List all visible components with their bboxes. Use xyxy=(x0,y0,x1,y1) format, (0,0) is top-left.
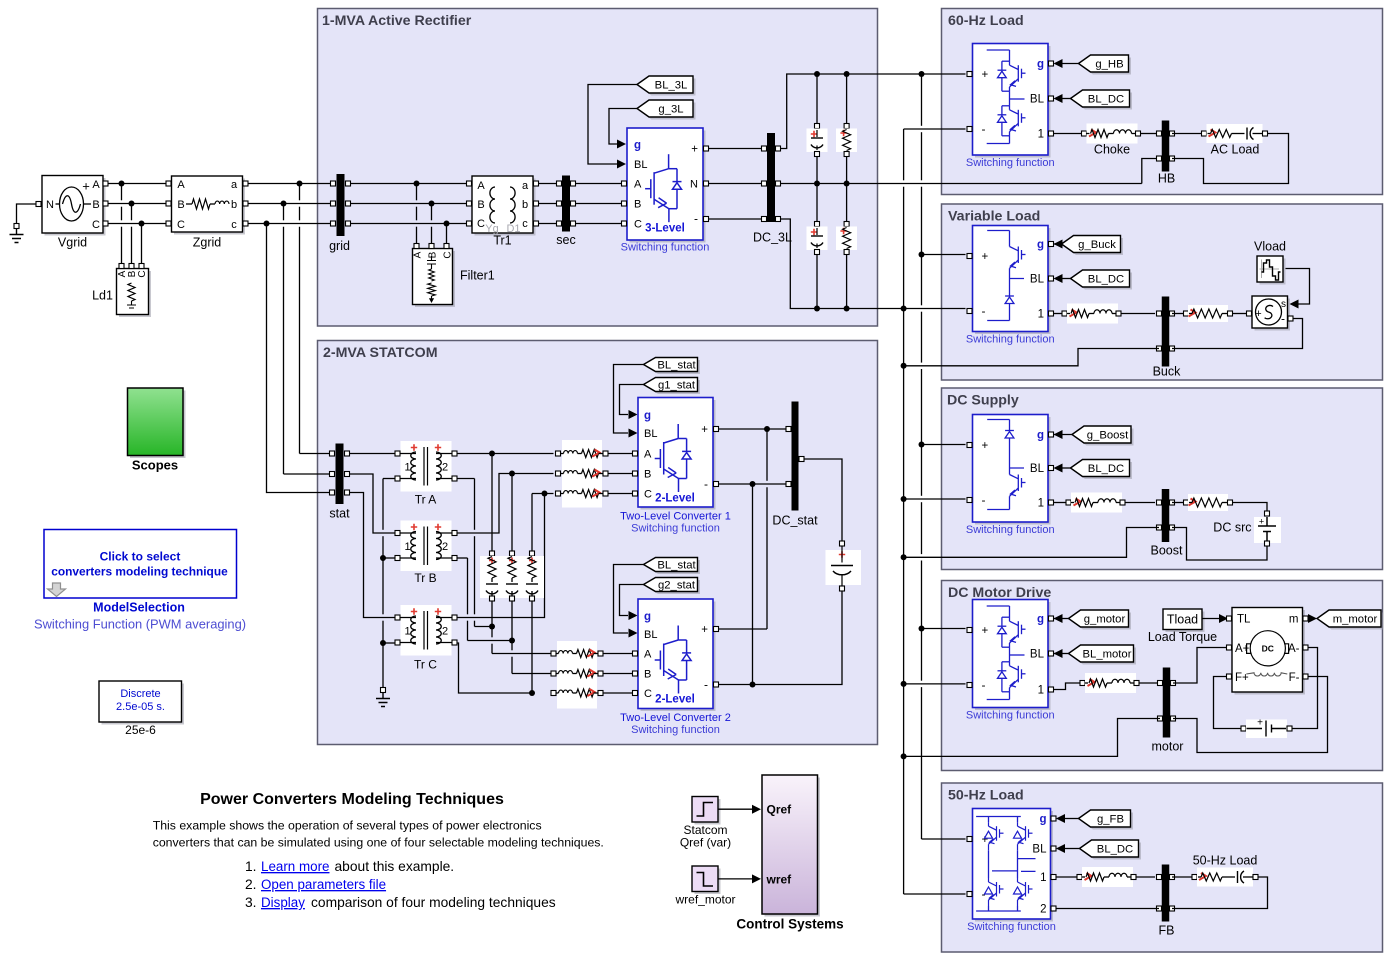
wire Boost bus return to minus rail xyxy=(906,528,1159,558)
junction Filter1 B xyxy=(429,201,435,207)
wire converter 1 plus to DC_stat xyxy=(719,428,787,430)
svg-text:This example shows the operati: This example shows the operation of seve… xyxy=(153,819,542,833)
wire stat C drop xyxy=(267,224,331,493)
wire converter output 2 to FB bus xyxy=(1057,908,1160,910)
junction plus rail DC Supply xyxy=(919,442,925,448)
svg-text:TL: TL xyxy=(1237,614,1251,626)
svg-text:+: + xyxy=(982,834,989,846)
junction minus rail Boost return xyxy=(901,554,907,560)
bus Boost xyxy=(1162,489,1170,542)
svg-text:2: 2 xyxy=(442,541,448,553)
svg-text:1: 1 xyxy=(404,626,410,638)
svg-text:Ld1: Ld1 xyxy=(92,289,113,303)
svg-text:Choke: Choke xyxy=(1094,143,1130,157)
junction minus rail motor return xyxy=(901,753,907,759)
svg-text:stat: stat xyxy=(329,507,350,521)
svg-text:BL: BL xyxy=(1030,94,1045,106)
svg-text:Switching function: Switching function xyxy=(967,921,1056,933)
svg-text:-: - xyxy=(704,678,708,692)
wire row C to RC branch 3 xyxy=(531,494,533,554)
battery DC src xyxy=(1265,511,1270,516)
svg-text:BL_DC: BL_DC xyxy=(1088,463,1124,475)
svg-text:+: + xyxy=(1259,517,1264,527)
wire FB bus to RC load xyxy=(1172,876,1192,878)
svg-text:Control Systems: Control Systems xyxy=(736,917,843,932)
svg-text:DC_stat: DC_stat xyxy=(772,514,818,528)
svg-text:BL: BL xyxy=(1030,274,1045,286)
resistor R2 lower DC bus xyxy=(846,186,848,222)
svg-text:Open parameters file: Open parameters file xyxy=(261,877,386,892)
svg-text:N: N xyxy=(46,199,54,211)
svg-text:m: m xyxy=(1289,614,1299,626)
wire Ld1 A drop xyxy=(121,184,123,201)
wire Variable plus stub xyxy=(922,254,966,256)
wire choke to motor bus xyxy=(1139,682,1160,684)
svg-text:Learn more: Learn more xyxy=(261,859,329,874)
wire RC2 junction to converter2 B xyxy=(511,643,513,650)
svg-text:C: C xyxy=(477,218,485,230)
svg-text:Variable Load: Variable Load xyxy=(948,209,1040,225)
wire Tr B secondary phase xyxy=(457,474,554,534)
wire wref_motor to Control Systems xyxy=(718,878,753,880)
wire phase B Vgrid to Zgrid xyxy=(108,203,166,205)
impedance block Zgrid xyxy=(174,179,245,235)
junction plus rail cap column xyxy=(814,71,820,77)
svg-text:converters modeling technique: converters modeling technique xyxy=(51,565,228,579)
controlled voltage source Vs xyxy=(1255,299,1291,331)
svg-text:a: a xyxy=(231,179,238,191)
svg-text:BL_DC: BL_DC xyxy=(1097,844,1133,856)
svg-text:wref: wref xyxy=(766,873,793,887)
svg-text:HB: HB xyxy=(1158,172,1175,186)
svg-text:Switching function: Switching function xyxy=(966,710,1055,722)
junction plus rail res column xyxy=(844,71,850,77)
wire RC load return xyxy=(1172,877,1268,909)
junction RC branch 1 xyxy=(489,451,495,457)
junction N res column xyxy=(844,181,850,187)
converter block Two-Level Converter 2 xyxy=(641,602,716,712)
svg-text:+: + xyxy=(1257,718,1263,729)
junction phase B to stat xyxy=(281,201,287,207)
svg-text:Power Converters Modeling Tech: Power Converters Modeling Techniques xyxy=(200,791,504,808)
wire converter minus link xyxy=(752,484,754,685)
junction minus rail Variable return xyxy=(901,363,907,369)
junction minus rail res column xyxy=(844,306,850,312)
resistor Rload Variable xyxy=(1184,311,1189,316)
junction secondary return A xyxy=(489,624,495,630)
svg-text:BL: BL xyxy=(644,629,657,641)
wire resistor to source xyxy=(1233,313,1248,315)
svg-text:1: 1 xyxy=(1040,872,1046,884)
wire Tr1 to sec bus phase b xyxy=(539,203,559,205)
resistor R1 upper DC bus xyxy=(846,76,848,124)
svg-text:1: 1 xyxy=(404,541,410,553)
source block wref_motor xyxy=(695,869,721,895)
junction phase A to Ld1 xyxy=(119,181,125,187)
svg-text:Load Torque: Load Torque xyxy=(1148,630,1217,644)
svg-text:50-Hz Load: 50-Hz Load xyxy=(948,788,1024,804)
svg-text:DC Motor Drive: DC Motor Drive xyxy=(948,585,1051,601)
svg-text:B: B xyxy=(644,469,651,481)
junction minus rail vertical xyxy=(901,306,907,312)
wire BL_motor to converter BL xyxy=(1054,653,1069,655)
svg-text:a: a xyxy=(522,180,529,192)
inductor choke motor xyxy=(1080,681,1085,686)
bus DC_3L xyxy=(767,133,775,222)
svg-text:3.: 3. xyxy=(245,895,257,910)
svg-text:g: g xyxy=(1037,239,1044,251)
svg-text:2-Level: 2-Level xyxy=(655,694,695,706)
svg-text:2-Level: 2-Level xyxy=(655,493,695,505)
junction converter minus link xyxy=(750,481,756,487)
wire Tr1 to sec bus phase a xyxy=(539,183,559,185)
svg-text:Switching function: Switching function xyxy=(966,334,1055,346)
wire RC3 bottom to junction xyxy=(531,601,533,691)
svg-text:Switching function: Switching function xyxy=(631,523,720,535)
svg-text:2: 2 xyxy=(442,462,448,474)
svg-text:ModelSelection: ModelSelection xyxy=(93,601,185,615)
svg-text:BL: BL xyxy=(1030,649,1045,661)
goto tag g1_stat xyxy=(646,380,700,394)
svg-text:DC_3L: DC_3L xyxy=(753,231,792,245)
svg-text:-: - xyxy=(982,678,986,692)
svg-text:1.: 1. xyxy=(245,859,257,874)
svg-text:g: g xyxy=(1039,814,1046,826)
svg-text:Scopes: Scopes xyxy=(132,458,178,473)
wire BL_stat to converter 2 BL xyxy=(614,565,644,634)
svg-text:Tload: Tload xyxy=(1167,613,1198,627)
svg-text:Discrete: Discrete xyxy=(120,688,160,700)
wire g2_stat to converter 2 g xyxy=(620,585,644,616)
junction minus rail DC Supply xyxy=(901,496,907,502)
wire motor bus to A+ xyxy=(1173,648,1227,684)
wire 50Hz plus stub xyxy=(922,838,966,840)
svg-text:C: C xyxy=(644,688,652,700)
wire DC plus rail xyxy=(781,74,966,149)
wire stat to Tr A primary xyxy=(350,453,396,455)
svg-text:2: 2 xyxy=(442,626,448,638)
svg-text:2.: 2. xyxy=(245,877,257,892)
filter block Filter1 xyxy=(415,251,455,307)
svg-text:g_Boost: g_Boost xyxy=(1087,430,1129,442)
svg-text:BL: BL xyxy=(1032,844,1047,856)
svg-text:Qref (var): Qref (var) xyxy=(680,836,731,850)
svg-text:g_3L: g_3L xyxy=(658,104,683,116)
wire m to m_motor tag xyxy=(1308,618,1310,620)
converter block Boost Switching function xyxy=(975,417,1051,525)
shunt RC branch 1 xyxy=(491,455,493,553)
wire DC_stat to capacitor top xyxy=(804,459,842,541)
junction secondary return C xyxy=(529,690,535,696)
svg-text:+: + xyxy=(691,144,698,156)
capacitor Cstat xyxy=(840,541,845,546)
svg-text:g1_stat: g1_stat xyxy=(658,380,696,392)
svg-text:50-Hz Load: 50-Hz Load xyxy=(1193,854,1258,868)
svg-text:g_HB: g_HB xyxy=(1095,59,1123,71)
svg-text:1: 1 xyxy=(1038,685,1044,697)
from tag g_HB xyxy=(1081,58,1131,75)
wire Choke to HB bus xyxy=(1141,133,1157,135)
wire DC minus rail xyxy=(781,219,966,309)
svg-text:+: + xyxy=(982,440,989,452)
svg-text:C: C xyxy=(644,489,652,501)
svg-text:-: - xyxy=(704,477,708,491)
svg-text:Qref: Qref xyxy=(767,803,793,817)
wire Tr A secondary return xyxy=(457,478,475,480)
svg-text:g: g xyxy=(1037,59,1044,71)
svg-text:2.5e-05 s.: 2.5e-05 s. xyxy=(116,701,165,713)
svg-text:A: A xyxy=(413,251,424,258)
svg-text:AC Load: AC Load xyxy=(1211,143,1260,157)
svg-text:about this example.: about this example. xyxy=(335,859,455,874)
wire choke to FB bus xyxy=(1136,876,1155,878)
converter block motor Switching function xyxy=(975,602,1051,710)
from tag g_Buck xyxy=(1064,238,1123,255)
from tag BL_DC 50Hz xyxy=(1082,843,1141,860)
from tag BL_DC 60Hz xyxy=(1073,93,1132,110)
svg-text:c: c xyxy=(231,219,237,231)
svg-text:3-Level: 3-Level xyxy=(645,223,685,235)
svg-text:2-MVA STATCOM: 2-MVA STATCOM xyxy=(323,345,438,361)
junction minus rail DC Motor xyxy=(901,681,907,687)
svg-text:Boost: Boost xyxy=(1151,544,1183,558)
goto tag BL_stat converter 1 xyxy=(646,360,700,374)
svg-text:m_motor: m_motor xyxy=(1333,614,1378,626)
wire motor bus return to minus rail xyxy=(906,719,1160,757)
junction phase C to stat xyxy=(264,221,270,227)
junction phase A to stat xyxy=(297,181,303,187)
svg-text:DC: DC xyxy=(1262,644,1274,654)
junction Tr B primary return xyxy=(380,555,386,561)
wire DC Supply minus stub xyxy=(904,498,966,500)
svg-text:Switching function: Switching function xyxy=(621,242,710,254)
junction plus rail Variable Load xyxy=(919,252,925,258)
goto tag BL_3L xyxy=(640,79,696,96)
svg-text:BL_motor: BL_motor xyxy=(1083,649,1132,661)
inductor choke Variable xyxy=(1062,311,1067,316)
wire stat A drop xyxy=(299,184,301,201)
wire RC1 junction to converter2 A xyxy=(491,629,493,637)
wire Buck bus return to minus rail xyxy=(906,349,1159,366)
wire AC Load return loop xyxy=(1172,134,1289,184)
svg-text:sec: sec xyxy=(556,233,575,247)
wire Boost bus to resistor xyxy=(1172,502,1184,504)
wire converter output 1 to choke 50Hz xyxy=(1057,876,1078,878)
wire phase A Zgrid to grid bus xyxy=(248,183,331,185)
voltage source Vgrid xyxy=(45,178,106,236)
svg-text:-: - xyxy=(982,493,986,507)
transformer Tr1 xyxy=(475,179,536,236)
wire DC Motor minus stub xyxy=(904,683,966,685)
panel 60-Hz Load xyxy=(942,9,1383,195)
svg-text:BL_stat: BL_stat xyxy=(657,560,696,572)
wire choke to Buck bus xyxy=(1121,313,1155,315)
svg-text:b: b xyxy=(522,199,528,211)
wire primary return chain xyxy=(383,478,395,480)
wire F- to motor bus return xyxy=(1173,677,1328,753)
svg-text:g: g xyxy=(644,410,651,422)
svg-text:1: 1 xyxy=(1038,309,1044,321)
from tag BL_DC DC Supply xyxy=(1073,462,1132,479)
converter block Two-Level Converter 1 xyxy=(641,400,716,510)
svg-text:DC src: DC src xyxy=(1213,521,1251,535)
subsystem Control Systems xyxy=(765,778,821,917)
svg-text:Click to select: Click to select xyxy=(100,550,181,564)
svg-text:Switching function: Switching function xyxy=(966,524,1055,536)
junction plus rail drop xyxy=(919,71,925,77)
source block Tload xyxy=(1166,612,1205,633)
wire converter output to choke Variable xyxy=(1054,313,1062,315)
svg-text:Vgrid: Vgrid xyxy=(58,236,87,250)
svg-text:-: - xyxy=(982,122,986,136)
panel 1-MVA Active Rectifier xyxy=(318,9,878,327)
svg-text:A: A xyxy=(634,179,642,191)
goto tag BL_stat converter 2 xyxy=(646,560,700,574)
wire g_Boost to converter g xyxy=(1054,434,1072,436)
wire BL_DC to converter BL Variable xyxy=(1062,278,1071,280)
wire g1_stat to converter 1 g xyxy=(620,385,644,415)
svg-text:BL: BL xyxy=(644,428,657,440)
wire converter 2 minus to capacitor xyxy=(719,591,843,685)
svg-text:Buck: Buck xyxy=(1153,365,1182,379)
svg-text:+: + xyxy=(701,624,708,636)
svg-text:60-Hz Load: 60-Hz Load xyxy=(948,13,1024,29)
wire grid bus to Tr1 phase C xyxy=(351,223,467,225)
junction N cap column xyxy=(814,181,820,187)
svg-text:N: N xyxy=(690,179,698,191)
wire Buck bus to resistor xyxy=(1172,313,1184,315)
junction phase C to Ld1 xyxy=(139,221,145,227)
svg-text:Two-Level Converter 1: Two-Level Converter 1 xyxy=(620,511,731,523)
svg-text:b: b xyxy=(231,199,237,211)
svg-text:F-: F- xyxy=(1289,672,1300,684)
transformer Tr C xyxy=(401,605,452,656)
junction converter 2 plus drop xyxy=(764,426,770,432)
inductor Choke 60Hz xyxy=(1082,131,1087,136)
wire resistor to DC src xyxy=(1233,503,1268,512)
svg-text:A: A xyxy=(92,179,100,191)
from tag m_motor xyxy=(1320,613,1384,630)
junction RC branch 2 xyxy=(509,471,515,477)
wire Tr1 to sec bus phase c xyxy=(539,223,559,225)
wire 3-Level N to DC_3L xyxy=(709,183,764,185)
wire source minus to Buck bus xyxy=(1172,319,1303,349)
transformer Tr A xyxy=(401,441,452,492)
svg-text:C: C xyxy=(177,219,185,231)
bus HB xyxy=(1162,121,1170,172)
wire stat to Tr B primary xyxy=(350,474,396,533)
svg-text:+: + xyxy=(701,424,708,436)
bus stat xyxy=(336,444,344,505)
load block Ld1 xyxy=(119,271,151,317)
svg-text:+: + xyxy=(982,251,989,263)
bus DC_stat xyxy=(792,402,799,511)
wire BL_DC to converter BL 50Hz xyxy=(1065,848,1080,850)
wire battery to F+ xyxy=(1214,677,1242,729)
svg-text:B: B xyxy=(428,251,439,258)
wire N line to HB return xyxy=(1142,159,1157,184)
junction row C xyxy=(542,491,548,497)
wire 60Hz minus stub xyxy=(904,128,966,130)
wire g_Buck to converter g xyxy=(1054,243,1062,245)
wire RL rows to converter 1 ports xyxy=(608,453,632,455)
panel 2-MVA STATCOM xyxy=(318,341,878,745)
transformer Tr B xyxy=(401,521,452,572)
from tag BL_motor xyxy=(1071,648,1136,665)
svg-text:Display: Display xyxy=(261,895,305,910)
wire g_FB to converter g xyxy=(1065,818,1079,820)
bus grid xyxy=(337,174,345,236)
svg-text:C: C xyxy=(634,219,642,231)
svg-text:converters that can be simulat: converters that can be simulated using o… xyxy=(153,836,604,850)
ground STATCOM xyxy=(381,688,386,693)
wire stat to Tr C primary xyxy=(350,493,396,618)
svg-text:-: - xyxy=(982,304,986,318)
wire grid bus to Tr1 phase B xyxy=(351,203,467,205)
svg-text:Switching function: Switching function xyxy=(631,724,720,736)
svg-text:+: + xyxy=(982,625,989,637)
wire RL rows to converter 2 ports xyxy=(603,653,632,655)
wire Filter1 C drop xyxy=(446,224,448,244)
wire choke to Boost bus xyxy=(1125,502,1155,504)
bus FB xyxy=(1162,865,1170,922)
wire phase C Zgrid to grid bus xyxy=(248,223,331,225)
RC load 50Hz xyxy=(1192,875,1197,880)
wire HB to AC Load xyxy=(1172,133,1202,135)
wire BL_DC to converter BL xyxy=(1062,98,1071,100)
svg-text:g_motor: g_motor xyxy=(1084,614,1126,626)
DC machine block xyxy=(1235,610,1306,695)
goto tag g2_stat xyxy=(646,580,700,594)
junction minus rail cap column xyxy=(814,306,820,312)
svg-text:A: A xyxy=(477,180,485,192)
svg-text:Tr1: Tr1 xyxy=(493,234,511,248)
svg-text:B: B xyxy=(634,199,641,211)
svg-text:BL_DC: BL_DC xyxy=(1088,94,1124,106)
svg-text:Tr A: Tr A xyxy=(415,493,437,507)
svg-text:-: - xyxy=(1281,312,1285,326)
svg-text:wref_motor: wref_motor xyxy=(674,893,735,907)
bus sec xyxy=(562,176,570,232)
wire DC Supply plus stub xyxy=(922,444,966,446)
inductor choke DC Supply xyxy=(1066,500,1071,505)
svg-text:+: + xyxy=(82,179,90,194)
svg-text:C: C xyxy=(92,219,100,231)
svg-text:BL_DC: BL_DC xyxy=(1088,274,1124,286)
svg-text:1: 1 xyxy=(1038,129,1044,141)
wire BL_DC to converter BL DC Supply xyxy=(1062,467,1071,469)
svg-text:25e-6: 25e-6 xyxy=(125,723,156,737)
wire Vgrid N to ground xyxy=(17,204,37,224)
wire battery to A- xyxy=(1292,648,1318,729)
wire Tload to TL xyxy=(1202,618,1220,620)
junction converter 2 minus xyxy=(750,682,756,688)
svg-text:Filter1: Filter1 xyxy=(460,269,495,283)
wire converter 1 output to Choke xyxy=(1054,133,1082,135)
svg-text:A: A xyxy=(644,449,652,461)
svg-text:Vload: Vload xyxy=(1254,240,1286,254)
svg-text:DC Supply: DC Supply xyxy=(947,393,1019,409)
svg-text:g2_stat: g2_stat xyxy=(658,580,696,592)
wire BL_stat to converter 1 BL xyxy=(614,365,644,434)
svg-text:1: 1 xyxy=(1038,498,1044,510)
wire DC src to Boost bus return xyxy=(1172,528,1267,561)
svg-text:g: g xyxy=(1037,614,1044,626)
svg-text:B: B xyxy=(92,199,99,211)
svg-text:BL: BL xyxy=(634,159,647,171)
converter block 3-Level xyxy=(630,131,706,243)
junction Filter1 C xyxy=(444,221,450,227)
